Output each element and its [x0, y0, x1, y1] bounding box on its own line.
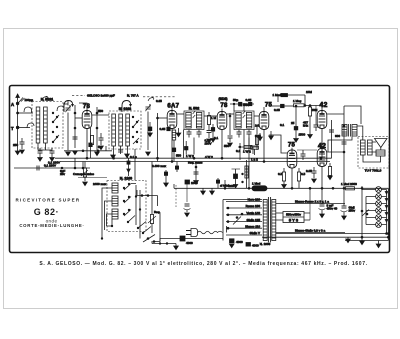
- AF coupling cap cluster: [232, 169, 241, 188]
- svg-text:1 Med 2000: 1 Med 2000: [341, 182, 357, 186]
- vertical box2 to osc: [134, 149, 136, 181]
- wire plate V1: [92, 114, 109, 116]
- svg-text:TU-7 7001.0: TU-7 7001.0: [365, 169, 382, 173]
- ground osc arrow: [176, 128, 181, 137]
- coupling hook top: [24, 107, 32, 113]
- V6 plate wire: [269, 135, 287, 153]
- blob cap 6A7: [167, 127, 170, 130]
- detector RC line: [238, 143, 258, 160]
- gang dashed link: [143, 96, 176, 98]
- svg-text:Bianco 110: Bianco 110: [245, 224, 260, 228]
- heater switch: [361, 210, 369, 217]
- wire antenna down: [17, 104, 19, 152]
- osc coil A: [112, 183, 118, 193]
- svg-text:467kHz: 467kHz: [303, 121, 309, 128]
- IFT1 secondary: [196, 113, 201, 129]
- wire to 6A7 grid: [158, 117, 168, 119]
- svg-text:Nero 220: Nero 220: [248, 198, 261, 202]
- osc bottom arms: [137, 222, 151, 234]
- heater bus left: [361, 186, 363, 238]
- ground selector: [229, 244, 234, 248]
- svg-text:Giallo 125: Giallo 125: [246, 218, 260, 222]
- grid wire V5: [321, 106, 323, 111]
- cathode blob V3: [211, 124, 216, 142]
- padder cap: [184, 180, 191, 212]
- resistor 50M: [308, 105, 313, 139]
- wire switch to fuse: [154, 239, 180, 242]
- svg-text:6µF25v: 6µF25v: [60, 169, 65, 176]
- filter cap C1: [319, 188, 326, 217]
- svg-text:0.45: 0.45: [255, 134, 261, 138]
- label 4000c: [246, 243, 259, 248]
- osc box bottom stubs: [107, 219, 113, 227]
- svg-text:6A7: 6A7: [167, 104, 179, 110]
- wire above IFT2: [230, 102, 254, 111]
- lamp right bus: [386, 190, 388, 234]
- coil L5: [126, 114, 130, 146]
- speaker dashed box: [358, 137, 389, 169]
- mains cord: [198, 231, 223, 234]
- wire A to coil: [17, 112, 33, 114]
- filter cap C2: [341, 188, 348, 219]
- pilot lamp 5: [376, 215, 382, 221]
- wire IFT2 sec down: [248, 138, 250, 189]
- speaker field coil: [376, 150, 385, 156]
- tuning cap section 2: [145, 105, 150, 112]
- coil L3: [112, 114, 116, 146]
- wire IFT1 down: [193, 138, 195, 155]
- trimmer rotation arrow d: [148, 97, 154, 101]
- svg-text:1500: 1500: [299, 133, 306, 137]
- tube 75 V6 phase splitter: [287, 150, 297, 168]
- ground AVC: [207, 139, 212, 143]
- svg-text:250: 250: [13, 143, 18, 147]
- cap 250 left: [20, 138, 25, 149]
- wire trimmer down: [67, 113, 69, 151]
- lamp inner bus: [365, 197, 367, 225]
- interstage transformer T1: [342, 124, 357, 137]
- bus junction dots: [86, 157, 322, 162]
- cathode 6A7: [171, 129, 173, 162]
- power transformer core: [268, 197, 270, 243]
- cathode V7 down: [321, 167, 323, 189]
- ground trimmer: [66, 152, 71, 156]
- ground stubs on bus: [201, 188, 215, 194]
- cap 600 left rail: [329, 120, 334, 158]
- cathode resistor V7: [328, 163, 333, 180]
- cathode wire V1: [86, 129, 88, 159]
- tube 6A7 V2: [167, 111, 177, 129]
- schematic frame: [10, 86, 390, 253]
- osc right verticals: [131, 184, 141, 233]
- sprinkle labels: [205, 121, 295, 159]
- osc grid resistor: [172, 130, 175, 148]
- ground pot: [83, 182, 88, 186]
- svg-text:2400 max: 2400 max: [93, 182, 107, 186]
- svg-text:0.65: 0.65: [156, 99, 162, 103]
- sub bus y151: [64, 146, 112, 152]
- rail 157.5: [157, 113, 159, 162]
- trimmer rotation arrow a: [42, 96, 48, 100]
- svg-text:G 82·: G 82·: [34, 207, 60, 217]
- svg-text:CORTE-MEDIE-LUNGHE·: CORTE-MEDIE-LUNGHE·: [19, 223, 84, 228]
- svg-text:4000: 4000: [252, 244, 259, 248]
- heater bottom bus 2: [262, 236, 388, 238]
- bus labels: [186, 150, 258, 162]
- coil L4: [119, 114, 123, 146]
- left AVC wire: [14, 158, 90, 169]
- dashed gang drop right: [175, 185, 177, 207]
- output transformer primary: [361, 140, 366, 155]
- svg-text:N. 1009: N. 1009: [260, 242, 271, 246]
- V6 cathode down: [291, 168, 293, 188]
- heater winding wire: [276, 232, 345, 234]
- cathode resistor V1: [90, 136, 93, 145]
- diode load resistors: [255, 125, 258, 150]
- band switch contacts S1: [52, 112, 59, 143]
- terminal T: [16, 126, 19, 129]
- svg-text:RICEVITORE SUPER: RICEVITORE SUPER: [16, 197, 81, 202]
- IFT1 trimmer cap B: [197, 130, 202, 138]
- coupling cap 0.05: [269, 104, 294, 107]
- ground arrows under 75: [258, 131, 274, 141]
- wire top rail left: [63, 103, 68, 105]
- svg-text:50M: 50M: [312, 108, 318, 112]
- ground bottom right: [345, 241, 388, 248]
- coil stubs box2: [113, 146, 128, 159]
- wire pot to osc: [78, 177, 107, 179]
- right inner bus: [387, 188, 389, 240]
- svg-text:0.65: 0.65: [160, 127, 166, 131]
- rectifier HT feed: [309, 204, 311, 220]
- tube 42 V5: [317, 111, 327, 129]
- lamp right arrows: [385, 192, 388, 223]
- svg-text:N. 502: N. 502: [189, 107, 200, 111]
- HT winding wires: [276, 203, 345, 205]
- svg-text:GELOSO 3x490 µµF: GELOSO 3x490 µµF: [87, 94, 115, 98]
- cap on avc: [37, 166, 39, 171]
- ground b: [50, 158, 55, 162]
- svg-text:50µ: 50µ: [233, 98, 238, 102]
- svg-text:5 Y 3: 5 Y 3: [289, 218, 299, 223]
- wire speaker field down: [363, 155, 381, 162]
- ground antenna: [15, 151, 20, 155]
- svg-text:Reg.: Reg.: [154, 210, 161, 214]
- switch contacts S2: [132, 116, 139, 144]
- mid cap 1500: [294, 105, 299, 142]
- blob under 6A7: [172, 148, 175, 162]
- svg-text:S. A. GELOSO. — Mod. G. 82. –: S. A. GELOSO. — Mod. G. 82. – 300 V al 1…: [39, 261, 367, 267]
- svg-text:1 Med: 1 Med: [252, 182, 261, 186]
- pilot lamp 1: [376, 187, 382, 193]
- dot V7 plate: [343, 151, 345, 153]
- wire interstage to V6 grid: [328, 137, 352, 153]
- svg-text:0.400 max: 0.400 max: [152, 164, 167, 168]
- osc switch contacts: [123, 183, 135, 223]
- antenna coupling cap 100µµF: [19, 98, 25, 103]
- speaker cone: [375, 139, 388, 148]
- antenna terminal A: [16, 94, 20, 105]
- ground tc2: [146, 152, 151, 156]
- fuse 4000b: [230, 239, 244, 244]
- svg-text:78: 78: [220, 103, 228, 109]
- grid cap wire V1: [79, 103, 87, 111]
- coil stubs box1: [38, 143, 52, 150]
- resistor 1 Meg: [294, 104, 324, 107]
- speaker wires: [372, 142, 381, 152]
- wire plate V5 to interstage: [327, 106, 361, 124]
- IFT1 trimmer cap A: [187, 130, 192, 138]
- svg-text:75: 75: [288, 143, 296, 149]
- svg-text:550: 550: [176, 154, 181, 158]
- resistor chain top: [273, 93, 306, 106]
- side cap 316: [314, 106, 319, 132]
- wire fuse to selector: [185, 238, 223, 240]
- svg-text:25: 25: [291, 121, 295, 125]
- svg-text:Bianco-Giallo 6,3 v 3 a: Bianco-Giallo 6,3 v 3 a: [295, 229, 326, 233]
- mains plug: [186, 229, 198, 237]
- svg-text:Reg. mass: Reg. mass: [188, 161, 203, 165]
- svg-text:550: 550: [98, 109, 103, 113]
- wire T to coil: [18, 127, 30, 129]
- osc loop wires left: [101, 188, 112, 239]
- osc coil B: [112, 196, 118, 206]
- svg-text:1 M: 1 M: [211, 116, 217, 120]
- V6 load resistor: [297, 168, 300, 188]
- gang dash lead: [72, 94, 85, 96]
- wire IFT2 to 75: [254, 115, 260, 117]
- svg-text:0.1: 0.1: [98, 145, 103, 149]
- svg-text:Rosso 160: Rosso 160: [246, 204, 261, 208]
- wire interstage top to speaker: [357, 126, 363, 140]
- IF transformer 2 can: [234, 111, 254, 130]
- grid hook arrow b: [64, 101, 74, 113]
- svg-text:N. 1100: N. 1100: [120, 177, 132, 181]
- IF transformer 1 can: [184, 111, 204, 130]
- IFT1 trimmer arrows: [193, 111, 196, 118]
- wire cord to selector: [226, 226, 228, 233]
- cathode V3: [221, 130, 223, 159]
- ground mid bus: [346, 237, 351, 242]
- dot heater: [361, 187, 363, 189]
- svg-text:Verde 140: Verde 140: [246, 211, 260, 215]
- drop 177: [175, 162, 178, 173]
- cap under coil box b: [50, 148, 55, 157]
- svg-text:0,1 180V: 0,1 180V: [44, 164, 56, 168]
- svg-text:550v+550v: 550v+550v: [286, 213, 301, 217]
- filter choke: [252, 182, 267, 191]
- svg-text:75: 75: [265, 103, 273, 109]
- output transformer secondary: [368, 140, 373, 155]
- bus left end drop: [173, 184, 175, 188]
- filter resistor: [341, 182, 357, 190]
- svg-text:N. 503: N. 503: [239, 103, 250, 107]
- osc aux wire right: [152, 214, 178, 250]
- tube 78 V3: [217, 112, 227, 130]
- svg-text:1 Meg: 1 Meg: [293, 99, 302, 103]
- AVC resistor cluster: [207, 112, 212, 138]
- volume control pot: [148, 162, 156, 234]
- bus AVC long: [55, 157, 332, 159]
- drop 225: [224, 180, 226, 189]
- bus cathode long: [60, 161, 330, 163]
- ground padder: [185, 213, 190, 217]
- osc coil box N.1100: [107, 181, 146, 232]
- IFT1 primary: [186, 113, 191, 129]
- volume feed resistor: [242, 160, 248, 188]
- blob tube78 lead: [89, 128, 92, 158]
- selector contacts: [227, 207, 243, 229]
- voltage selector panel: [223, 200, 262, 241]
- pilot lamp 4: [376, 208, 382, 214]
- ground heater: [360, 238, 365, 245]
- svg-text:1 W 2: 1 W 2: [243, 150, 251, 154]
- svg-text:0.05: 0.05: [246, 98, 252, 102]
- volume pot left: [81, 162, 88, 182]
- plate wire V7: [327, 151, 344, 153]
- svg-text:Bianco-Rosso 2 x 3 v. 1 a: Bianco-Rosso 2 x 3 v. 1 a: [295, 200, 329, 204]
- svg-text:T: T: [11, 126, 14, 131]
- IFT2 primary: [236, 113, 241, 129]
- wire 6A7 plate to IFT1: [177, 113, 184, 115]
- svg-text:0.5: 0.5: [278, 172, 283, 176]
- blob feed: [127, 158, 130, 176]
- grid wire V4: [263, 107, 265, 112]
- IFT2 aux rail: [244, 130, 259, 156]
- tube 42 V7: [317, 149, 327, 167]
- IFT2 trimmer cap B: [247, 130, 252, 138]
- svg-text:600: 600: [335, 134, 340, 138]
- svg-text:10M: 10M: [306, 90, 312, 94]
- coil L1: [36, 107, 40, 143]
- svg-text:1 W 2: 1 W 2: [186, 154, 194, 158]
- wire rect to bus: [309, 188, 311, 204]
- grid wire V7: [321, 147, 323, 149]
- osc coil C: [112, 209, 118, 219]
- osc coupling cap: [148, 122, 153, 137]
- coupling hook mid: [57, 106, 64, 111]
- power transformer secondary: [272, 200, 276, 241]
- filler vert 196: [194, 164, 199, 184]
- heater bottom bus 1: [276, 233, 389, 235]
- wire trimmer vertical: [67, 100, 69, 106]
- trimmer arrow C1: [65, 106, 70, 113]
- blob under IFT1: [185, 141, 188, 155]
- bus dots: [248, 187, 345, 189]
- grid wire V6: [291, 148, 293, 150]
- RF coil box N.5191: [32, 102, 63, 149]
- svg-text:N. 787 A: N. 787 A: [127, 94, 139, 98]
- wire HT rows: [276, 213, 310, 220]
- IFT2 trimmer cap A: [237, 130, 242, 138]
- tube 75 V4: [259, 112, 269, 130]
- pilot lamp 3: [376, 201, 382, 207]
- IFT2 trimmer arrows: [243, 111, 246, 118]
- svg-text:N. 1102: N. 1102: [119, 107, 131, 111]
- main HT bus: [174, 187, 388, 189]
- svg-text:A: A: [11, 102, 14, 107]
- coil L2: [44, 107, 48, 143]
- power transformer primary: [263, 200, 267, 241]
- cap on rail75: [73, 137, 78, 139]
- tube 78 V1: [82, 111, 92, 129]
- lamp left leads: [362, 190, 376, 225]
- screen components V3: [228, 113, 233, 142]
- wire osc to bus: [139, 232, 141, 239]
- svg-text:0.05: 0.05: [274, 108, 280, 112]
- grounds under box2: [111, 154, 130, 159]
- grid cap wire 6A7: [171, 104, 173, 111]
- pilot lamp 2: [376, 194, 382, 200]
- wire V3 plate: [227, 113, 234, 115]
- svg-text:Giallo V: Giallo V: [249, 231, 260, 235]
- cap under coil box a: [38, 148, 43, 157]
- coupling hook bottom: [27, 123, 34, 128]
- wire rail75 to tube: [75, 117, 82, 119]
- grid wire V3: [221, 109, 223, 112]
- ground screen cap: [99, 146, 104, 150]
- lamp right leads: [381, 190, 386, 225]
- svg-text:Giall250v: Giall250v: [349, 206, 356, 213]
- IFT2 secondary: [246, 113, 251, 129]
- wire tc2 down: [147, 112, 149, 151]
- ground a: [38, 158, 43, 162]
- local wire y195.5: [137, 190, 158, 206]
- ground 97: [95, 152, 100, 156]
- IFT1 left drop: [183, 130, 185, 159]
- drop 218: [216, 178, 219, 188]
- wire V3 grid left: [204, 115, 217, 117]
- coil box N.1102: [109, 111, 141, 149]
- filler vert 166: [164, 170, 169, 187]
- svg-text:0.05: 0.05: [306, 169, 312, 173]
- svg-text:0.5: 0.5: [301, 172, 306, 176]
- svg-text:4000: 4000: [186, 241, 193, 245]
- power switch: [143, 235, 155, 243]
- rail x75: [74, 105, 76, 148]
- svg-text:0.1: 0.1: [236, 149, 241, 153]
- bottom bus dots: [361, 233, 389, 239]
- cathode V5: [321, 129, 323, 159]
- ground V3 screen: [228, 143, 233, 147]
- svg-text:4000: 4000: [236, 240, 243, 244]
- fuse 4000: [180, 236, 185, 241]
- cathode V4: [263, 130, 265, 162]
- rectifier box 5Y3: [283, 212, 304, 223]
- pilot lamp 6: [376, 222, 382, 228]
- screen bypass cap: [99, 133, 104, 145]
- svg-text:(6D6): (6D6): [219, 97, 229, 101]
- screen rail x97: [96, 107, 98, 150]
- mid cap 42 grid: [297, 150, 317, 160]
- ground rail75: [73, 151, 78, 155]
- grid hook arrow c: [122, 101, 132, 113]
- ground cap250: [20, 150, 25, 154]
- svg-text:0.1: 0.1: [280, 123, 285, 127]
- V6 grid resistor: [282, 168, 287, 188]
- svg-text:42: 42: [319, 102, 327, 109]
- rail 344: [342, 114, 347, 188]
- cap V7: [312, 167, 317, 183]
